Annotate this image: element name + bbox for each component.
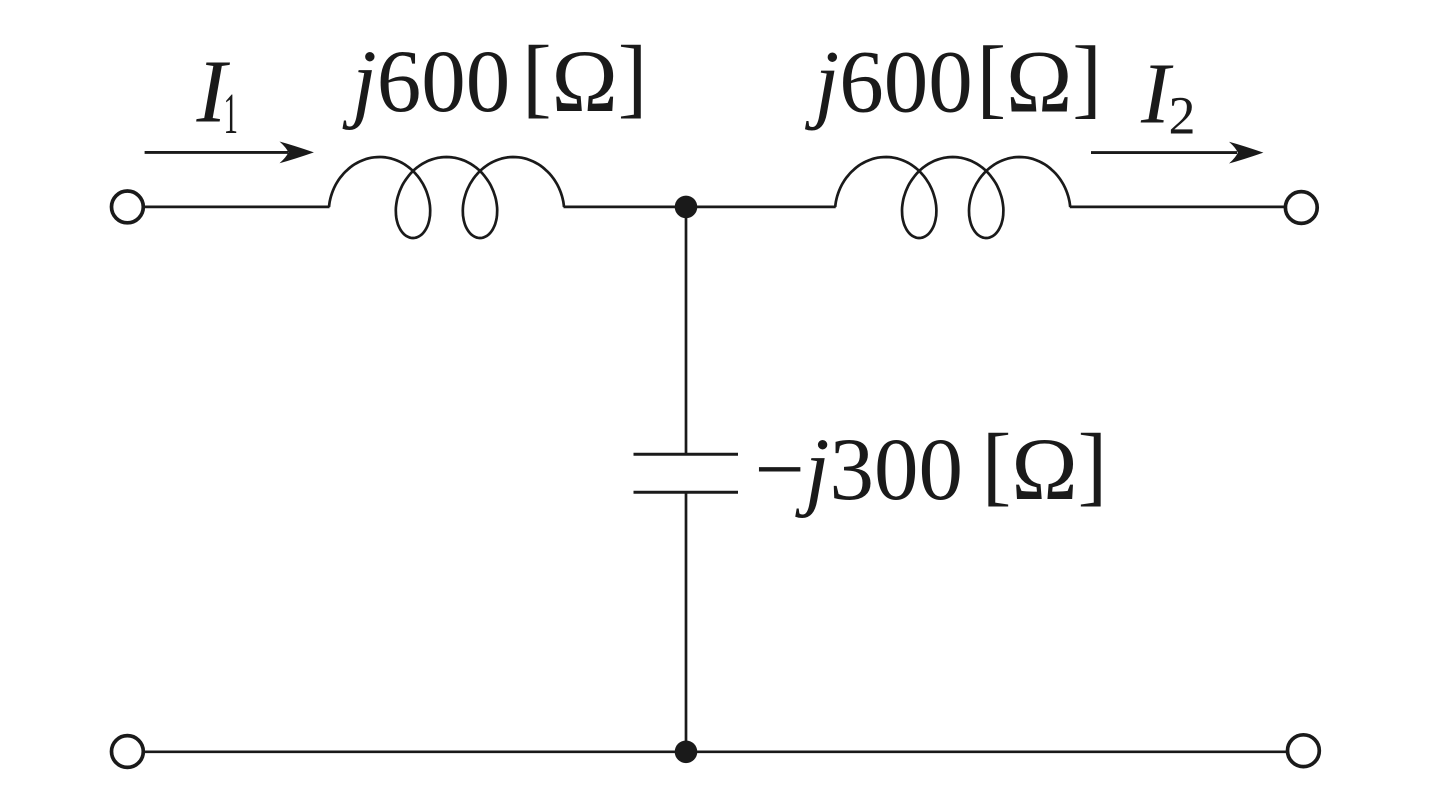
terminal (bottom-left open circle): [112, 736, 144, 768]
inductor L2 (j600 ohm): [835, 157, 1070, 238]
svg-text:j600: j600: [805, 34, 973, 132]
wire (capacitor to node B): [685, 492, 688, 752]
wire (top-left terminal to L1): [145, 206, 330, 209]
terminal (bottom-right open circle): [1288, 735, 1320, 767]
wire (L1 to node A): [564, 206, 836, 209]
terminal (top-right open circle): [1285, 192, 1317, 224]
inductor L1 (j600 ohm): [329, 157, 564, 238]
svg-text:[Ω]: [Ω]: [522, 29, 647, 132]
svg-text:j600: j600: [342, 33, 510, 131]
svg-text:2: 2: [1169, 86, 1196, 146]
capacitor C1 bottom plate: [634, 491, 739, 494]
arrow I1 (current direction): [145, 151, 288, 154]
svg-text:−j300: −j300: [755, 421, 963, 519]
node B (junction dot, bottom): [675, 741, 698, 764]
node A (junction dot, top): [675, 196, 698, 219]
terminal (top-left open circle): [112, 191, 144, 223]
wire (L2 to top-right terminal): [1070, 206, 1286, 209]
svg-text:[Ω]: [Ω]: [977, 29, 1102, 132]
arrow I2 (current direction): [1091, 151, 1237, 154]
svg-text:1: 1: [224, 81, 238, 146]
wire (bottom rail): [145, 750, 1287, 753]
svg-text:[Ω]: [Ω]: [982, 417, 1107, 520]
capacitor C1 top plate: [634, 453, 739, 456]
wire (node A down to capacitor): [685, 207, 688, 454]
